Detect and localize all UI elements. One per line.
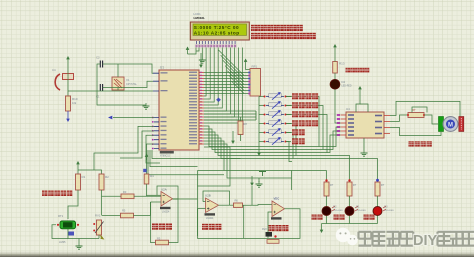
wire P1 nested corners — [120, 131, 154, 158]
power arrow left rail — [146, 156, 148, 160]
svg-text:R13: R13 — [339, 62, 345, 66]
LCD screen — [193, 24, 247, 35]
ground for LCD — [201, 48, 203, 58]
wire crystal top — [117, 64, 119, 77]
svg-text:VDC: VDC — [274, 197, 280, 201]
wire driver ground — [363, 138, 365, 150]
wire R11 to motor — [424, 115, 438, 124]
wire bus L6 done LED — [204, 141, 224, 171]
ground mid bus — [258, 178, 260, 182]
svg-text:R10: R10 — [72, 97, 78, 101]
wire vertical mid — [197, 171, 199, 237]
svg-text:U2B: U2B — [205, 194, 211, 198]
LED D3 — [373, 207, 382, 216]
watermark wechat icon — [336, 228, 358, 246]
label done — [312, 215, 317, 220]
ground arrow opamp3 in — [251, 176, 253, 184]
wire LCD verticals staircase — [204, 48, 243, 124]
power arrow driver — [359, 88, 361, 100]
svg-text:U1: U1 — [160, 66, 164, 70]
svg-text:R?: R? — [381, 183, 385, 187]
LED D4 heater — [330, 79, 340, 89]
wire P1.1 to left rail — [94, 126, 154, 170]
wire crystal bottom — [117, 88, 119, 91]
wire R1 to RT1 — [68, 190, 78, 219]
push button K4 — [259, 123, 264, 125]
resistor R2 — [99, 174, 104, 190]
wire P0 horizontals to RP1 — [204, 73, 249, 94]
wire opamp1 feedback — [157, 186, 178, 199]
LCD module LCD1 body — [190, 22, 249, 40]
wire buttons left common — [258, 97, 260, 148]
wire R3 to opamp — [134, 195, 162, 197]
wire bus L2 — [204, 129, 341, 150]
svg-text:LM016L: LM016L — [194, 16, 206, 20]
wire XTAL1 — [103, 64, 153, 73]
bottom shadow band — [0, 251, 474, 257]
svg-text:LED-RED: LED-RED — [342, 86, 352, 88]
wire D4 to driver — [335, 89, 341, 123]
wire diagonal fan — [219, 50, 245, 94]
label temperature sensor — [42, 191, 48, 197]
wire RV1 bottom — [98, 235, 100, 239]
wire opamp2 out to R6 — [219, 204, 234, 206]
ground arrow buttons — [258, 147, 260, 154]
LED D2 column resistor — [324, 182, 329, 196]
LED D1 — [345, 207, 354, 216]
wire opamp3 out feedback — [268, 209, 300, 239]
svg-text:U2A: U2A — [161, 188, 167, 192]
wire R5 to opamp in2 — [134, 215, 151, 217]
svg-text:10k: 10k — [72, 101, 77, 105]
resistor R5 input — [121, 213, 134, 218]
svg-text:R?: R? — [412, 108, 416, 112]
svg-text:DIY: DIY — [413, 233, 438, 249]
wire R2 down — [101, 190, 103, 215]
capacitor C3 electrolytic — [55, 74, 60, 90]
wire resistor to LED D1 — [349, 196, 351, 206]
push button K3 — [259, 114, 264, 116]
crystal X1 — [112, 77, 124, 90]
wire opamp1 below loop — [151, 202, 156, 243]
wire resistor to LED D3 — [377, 196, 379, 206]
wire resistor to LED D2 — [326, 196, 328, 206]
wire MCU bottom to R4 — [147, 144, 155, 174]
svg-text:R?: R? — [330, 183, 334, 187]
MCU pin name text — [161, 72, 168, 73]
junction dot D3 column blue — [376, 179, 379, 182]
power arrow for LCD — [187, 49, 189, 54]
svg-text:AT89C52: AT89C52 — [160, 155, 171, 158]
wire R2 to R3 — [102, 195, 122, 197]
resistor R8 mid — [238, 121, 243, 135]
wire divider rail — [78, 170, 102, 174]
wire driver top pins — [356, 100, 360, 112]
wire R6 tee down to bottom rail — [244, 205, 268, 238]
pot RV2 — [266, 232, 273, 237]
LED D3 column resistor — [375, 182, 380, 196]
driver chip left pins — [341, 115, 347, 135]
resistor R13 — [333, 62, 338, 74]
svg-text:LM324: LM324 — [206, 217, 214, 220]
resistor R5b feedback — [156, 240, 169, 245]
label button lowwater alarm — [292, 111, 298, 117]
label button stop — [292, 138, 298, 144]
wire button1 to bus — [286, 97, 319, 147]
junction dot D2 column — [325, 179, 327, 181]
push button K2 — [259, 105, 264, 107]
wire R5b right up to output — [169, 199, 179, 243]
wire button4 to bus — [286, 124, 296, 156]
wire opamp2 feedback — [203, 191, 230, 205]
svg-text:R4: R4 — [150, 174, 154, 178]
push button K5 — [259, 132, 264, 134]
wire divider tap to opamp in2 — [102, 215, 121, 217]
wire LED commons — [326, 216, 328, 224]
wire RST to MCU — [68, 90, 153, 92]
label alarm-status line — [251, 33, 257, 39]
label subtractor — [152, 224, 158, 230]
svg-text:LED-RED: LED-RED — [333, 210, 343, 212]
junction diamond — [216, 98, 221, 102]
wire button2 to bus — [286, 106, 323, 150]
svg-text:D4: D4 — [342, 80, 346, 84]
label button lowtemp alarm — [292, 93, 298, 99]
label follower — [202, 224, 208, 230]
wire R11 top loop — [412, 107, 427, 113]
svg-text:R1: R1 — [82, 175, 86, 179]
svg-text:C1: C1 — [96, 95, 100, 99]
svg-text:LED-RED: LED-RED — [356, 210, 366, 212]
resistor R4 vertical — [144, 174, 149, 184]
LED D1 column resistor — [347, 182, 352, 196]
resistor R6 — [234, 203, 243, 207]
power bar opamp3 — [259, 172, 266, 177]
wire R6 to opamp3 — [243, 204, 273, 207]
wire driver out1 top loop — [390, 101, 464, 124]
svg-text:R5: R5 — [122, 209, 126, 213]
ground RT1 — [78, 239, 80, 244]
svg-text:R5: R5 — [157, 237, 161, 241]
svg-text:U4: U4 — [346, 107, 350, 111]
power arrow RP1 — [245, 61, 247, 67]
wire P1.0 net — [113, 117, 154, 119]
wire driver out2 to resistor — [390, 121, 400, 123]
wire XTAL2 — [103, 81, 153, 87]
svg-text:A1:10 A2:05 stop: A1:10 A2:05 stop — [194, 30, 240, 35]
resistor R1 — [76, 174, 81, 190]
wire button5 to bus — [286, 133, 293, 159]
driver chip pin text — [348, 114, 354, 116]
wire P2 horizontals to rail — [204, 111, 256, 120]
MCU right pin stubs — [199, 73, 204, 145]
label heater indicator — [346, 68, 351, 73]
label button lowwater clear — [292, 120, 298, 126]
power arrow heater — [334, 46, 336, 57]
power arrow divider — [77, 163, 79, 170]
wire bus L8 down — [198, 147, 231, 186]
power arrow reset — [67, 58, 69, 66]
ground arrow LEDs — [321, 224, 323, 231]
label washing motor — [409, 141, 414, 146]
label run — [334, 215, 339, 220]
wire bus L4 run LED — [204, 135, 350, 182]
resistor R10 — [66, 96, 71, 111]
LED D2 — [322, 207, 331, 216]
svg-text:R3: R3 — [123, 190, 127, 194]
label speed-temp-countdown — [251, 25, 257, 31]
wire button3 to bus — [286, 115, 327, 153]
junction dot D1 column — [348, 179, 350, 181]
svg-text:RV2: RV2 — [262, 228, 267, 231]
wire opamp1 out — [173, 198, 198, 200]
svg-text:R?: R? — [353, 183, 357, 187]
svg-text:X1: X1 — [126, 78, 130, 82]
label stop2 — [364, 215, 369, 220]
svg-text:C4: C4 — [52, 68, 56, 72]
wire LCD vss — [188, 48, 197, 55]
svg-text:M: M — [448, 123, 453, 129]
svg-text:LM35: LM35 — [59, 240, 66, 244]
MCU left pin stubs — [153, 73, 159, 148]
power arrow MCU EA — [200, 53, 202, 66]
wire R13 to D4 — [334, 73, 336, 80]
motor M1 — [439, 117, 444, 132]
MCU part number label — [160, 151, 174, 154]
wire reset cap to R10 — [67, 66, 69, 96]
push button K6 — [259, 141, 264, 143]
ground arrow mid — [232, 131, 234, 142]
svg-text:C2: C2 — [96, 56, 100, 60]
label button start — [292, 129, 298, 135]
MCU U1 AT89C52 body — [159, 70, 199, 150]
svg-text:RT1: RT1 — [58, 214, 64, 218]
ground driver — [363, 150, 365, 153]
wire bus L5 stop LED — [204, 138, 378, 182]
resistor R3 — [121, 194, 134, 199]
wire bus L3 — [204, 132, 341, 153]
wire opamp1 in stubs — [147, 194, 162, 196]
wire bus L1 heater — [204, 126, 341, 147]
wire bus L7 — [204, 144, 292, 178]
wire LCD vee — [196, 48, 199, 52]
wire RT1 bottom — [68, 229, 99, 239]
ground crystal caps — [145, 103, 147, 106]
driver chip right pins — [384, 116, 390, 134]
label button lowtemp clear — [292, 102, 298, 108]
wire R4 to input — [146, 184, 148, 196]
wire MCU bottom pins right — [152, 150, 241, 159]
resistor R11 motor — [408, 113, 424, 118]
watermark studio text — [359, 232, 474, 246]
svg-text:R8: R8 — [244, 122, 248, 126]
svg-text:RV1: RV1 — [95, 214, 101, 218]
svg-text:LM324: LM324 — [162, 211, 170, 214]
wire opamp2 in — [198, 208, 206, 210]
svg-text:RP1: RP1 — [252, 65, 258, 69]
svg-text:R6: R6 — [235, 199, 239, 203]
wire opamp2 lower box — [198, 209, 244, 239]
wire caps common — [97, 64, 146, 105]
LCD pin labels — [195, 45, 197, 48]
wire driver out3 to motor bottom — [390, 128, 441, 136]
svg-text:CRYSTAL: CRYSTAL — [126, 83, 137, 86]
svg-text:LED-RED: LED-RED — [384, 210, 394, 212]
push button K1 — [259, 96, 264, 98]
net arrow below R10 — [67, 111, 69, 120]
wire button6 to bus — [286, 142, 292, 162]
svg-text:R2: R2 — [105, 175, 109, 179]
